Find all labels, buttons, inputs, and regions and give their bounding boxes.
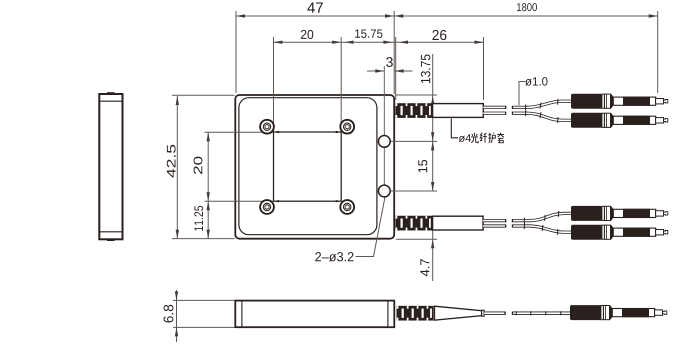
cable assembly 2 branch down <box>524 223 571 235</box>
dimension 1800 <box>394 11 658 93</box>
cable assembly 1 sheath tube <box>433 104 484 118</box>
connector 1a <box>571 94 668 109</box>
cable assembly 1 branch up <box>526 99 572 111</box>
square corner arrow BR <box>336 200 341 202</box>
bottom view cable <box>484 311 570 315</box>
square corner arrow TR <box>336 131 341 133</box>
side hole upper <box>378 136 390 148</box>
bottom view bellows <box>397 306 434 321</box>
dimension 20 left <box>205 132 274 201</box>
dimension 15 <box>390 141 437 191</box>
dimension 47 <box>236 11 394 94</box>
dimension 20 top <box>274 37 342 132</box>
dimension 13.75 <box>390 54 437 141</box>
top view plate inner contour <box>239 98 377 235</box>
connector 2a <box>571 206 668 221</box>
cable assembly 2 sheath tube <box>433 216 484 230</box>
side view plate (left) <box>99 92 122 241</box>
dimension 26 <box>396 37 484 100</box>
centerline through side holes <box>383 66 385 197</box>
label 2-o3.2 with leader <box>356 198 385 257</box>
cable assembly 1 branch down <box>526 110 572 122</box>
dimension 3 <box>367 70 413 72</box>
dimension 42.5 <box>172 95 235 238</box>
inner square boss <box>274 132 342 201</box>
socket screw bottom-right <box>340 200 354 214</box>
cable assembly 1 fibers straight <box>483 107 527 113</box>
dimension 11.25 <box>207 201 209 238</box>
square corner arrow TL <box>274 131 279 133</box>
cable assembly 2 bellows <box>395 216 432 231</box>
bottom view connector <box>570 305 667 320</box>
cable assembly 1 bellows <box>395 103 432 118</box>
label o4 fiber sheath with leader <box>451 119 458 138</box>
bottom view taper boot <box>435 306 485 320</box>
top view plate outline <box>235 95 394 239</box>
dimension 6.8 <box>173 290 235 342</box>
side hole lower <box>378 185 390 197</box>
hand-drawn CJK: guang xian hu tao <box>471 133 504 143</box>
dimension 4.7 <box>396 223 437 281</box>
cable assembly 2 fibers straight <box>483 221 530 226</box>
square corner arrow BL <box>274 200 279 202</box>
socket screw top-left <box>260 120 274 134</box>
dimension 15.75 <box>341 37 396 100</box>
label o1.0 with leader <box>519 82 526 106</box>
socket screw bottom-left <box>260 200 274 214</box>
socket screw top-right <box>340 120 354 134</box>
connector 2b <box>571 225 668 240</box>
connector 1b <box>571 113 668 128</box>
bottom view plate <box>235 301 394 328</box>
cable assembly 2 branch up <box>524 211 571 224</box>
